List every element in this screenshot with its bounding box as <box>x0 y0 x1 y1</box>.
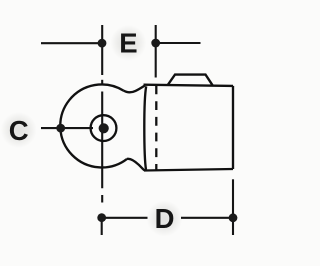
dimension E left extension stub <box>101 25 103 75</box>
dim dot E right <box>151 39 160 48</box>
svg-text:E: E <box>119 28 137 59</box>
dimension D right extension line <box>232 179 234 235</box>
pin center dot <box>99 123 109 133</box>
neck bottom curve <box>127 159 145 171</box>
centerline dash below eye <box>101 195 103 203</box>
dimension E line right segment <box>156 42 201 44</box>
pipe stop dashed line <box>155 86 157 171</box>
svg-text:D: D <box>155 203 175 234</box>
eye outer circle arc <box>60 84 127 167</box>
dim dot C <box>56 124 65 133</box>
body top edge <box>144 85 234 86</box>
dimension E right extension stub <box>155 25 157 78</box>
eye inner circle (pin hole) <box>91 115 117 141</box>
dimension D line left segment <box>102 217 148 219</box>
label halo C <box>1 112 37 148</box>
dimension C line / horizontal crosshair <box>41 127 93 129</box>
set screw boss (trapezoid) <box>168 75 213 86</box>
dim dot D right <box>229 213 238 222</box>
label halo D <box>147 201 183 237</box>
dimension D left stub <box>101 218 103 235</box>
vertical crosshair through eye <box>101 92 103 189</box>
dim dot D left <box>97 213 106 222</box>
body bottom edge <box>144 169 233 171</box>
socket mouth flare (left edge of body) <box>144 86 146 169</box>
label halo E <box>110 25 146 61</box>
neck top curve <box>124 86 145 93</box>
dimension E line left segment <box>41 42 102 44</box>
svg-text:C: C <box>9 115 29 146</box>
dim dot E left <box>98 39 107 48</box>
dimension D line right segment <box>181 217 233 219</box>
body right edge <box>232 86 234 169</box>
centerline dash above eye <box>101 80 103 85</box>
